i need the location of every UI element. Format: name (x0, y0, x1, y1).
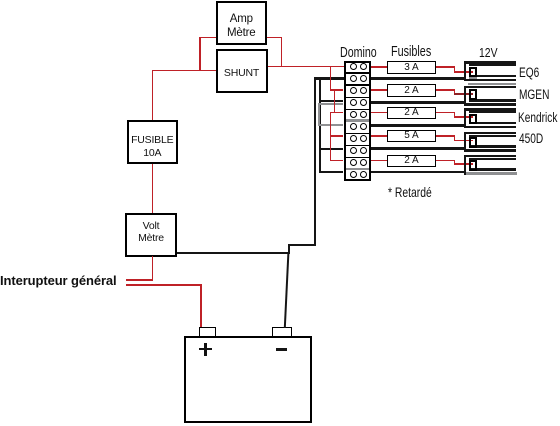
label Retarde note (388, 184, 432, 200)
wire row9 to fuse F5 (371, 160, 388, 162)
label 12V (479, 45, 498, 60)
battery plus symbol (199, 343, 212, 356)
fuse F3 2A (387, 107, 436, 120)
fuse F2 2A (387, 84, 436, 97)
wire row1 to fuse F1 (371, 66, 388, 68)
wire row5 to fuse F3 (371, 112, 388, 114)
label Domino (340, 44, 377, 61)
outer shell left (464, 61, 467, 81)
outer shell bottom (464, 103, 516, 106)
fuse F1 3A (387, 61, 436, 74)
wire riser shunt to fusible (152, 70, 154, 120)
wire fuse F4 to connector pin (0, 0, 1, 1)
wire shunt left horizontal (152, 70, 216, 72)
outer shell bottom (464, 126, 516, 129)
center pin (469, 89, 478, 100)
wire 12V branch row5 (330, 112, 344, 114)
label Fusibles (391, 43, 431, 60)
wire ground line to connector 450D (371, 147, 467, 150)
wire ground row8 horizontal (319, 148, 344, 151)
battery positive terminal tab (199, 327, 216, 337)
outer shell left (464, 108, 467, 128)
wire ground gray riser (318, 103, 320, 126)
outer shell left (464, 86, 467, 106)
wire amp meter right horizontal (267, 37, 282, 39)
wire fuse F3 to connector pin (0, 0, 1, 1)
wire ground line to connector EQ6 (371, 77, 467, 80)
wire 12V staircase riser 1 (330, 66, 332, 91)
battery B1 (184, 336, 312, 423)
label EQ6 (519, 65, 539, 80)
outer shell left (464, 132, 467, 152)
outer shell bottom (464, 79, 516, 82)
outer shell top (464, 132, 516, 135)
wire ground bus vertical (negative) (314, 77, 316, 246)
center pin (469, 67, 478, 78)
wire 12V branch row9 (330, 160, 344, 162)
label Kendrick (518, 110, 557, 125)
wire ground line to connector MGEN (371, 101, 467, 104)
center pin (469, 137, 478, 148)
wire shunt right main 12V horizontal (268, 66, 344, 68)
battery minus symbol (276, 348, 287, 351)
outer shell top (464, 108, 516, 111)
wire ground line to connector 5 (371, 171, 467, 173)
wire 12V branch row7 (330, 135, 344, 137)
fuse F4 5A (387, 130, 436, 143)
wire fuse F1 to connector pin (0, 0, 1, 1)
wire 12V branch row3 (330, 89, 344, 91)
inner contact top (469, 135, 516, 137)
wire ground row10 horizontal (319, 171, 344, 173)
wire amp meter left horizontal (199, 37, 216, 39)
pin stub (gray) (469, 77, 478, 79)
wire ground row2 horizontal (314, 77, 344, 80)
wire ground bus step vertical (288, 244, 290, 254)
battery negative terminal tab (272, 327, 293, 337)
outer shell top (464, 86, 516, 89)
label Interupteur general (0, 273, 117, 289)
wire voltmeter to switch junction (152, 256, 154, 281)
connector J1 12V EQ6 (464, 61, 517, 83)
wire switch lower contact to battery (126, 284, 202, 286)
inner contact top (469, 158, 516, 160)
wire ground bus step horizontal (288, 244, 316, 246)
inner contact bottom (469, 122, 516, 124)
wire battery positive vertical (200, 284, 202, 327)
connector J3 12V Kendrick (464, 108, 517, 130)
wire fuse F2 to connector pin (0, 0, 1, 1)
wire 12V staircase riser 3 (330, 112, 332, 161)
inner contact top (469, 111, 516, 113)
outer shell bottom (464, 149, 516, 152)
amp meter M1 (216, 1, 268, 45)
ground sleeve (gray) (468, 83, 517, 86)
wire fuse F5 to connector pin (0, 0, 1, 1)
outer shell left (464, 155, 467, 176)
fuse F5 2A (387, 155, 436, 168)
wire amp meter left vertical (199, 37, 201, 71)
inner contact top (469, 64, 516, 66)
inner contact bottom (469, 75, 516, 77)
wire ground row6 gray horizontal (318, 124, 343, 126)
wire ground row4 horizontal (319, 100, 344, 102)
terminal block Domino (344, 61, 371, 182)
wire row3 to fuse F2 (371, 89, 388, 91)
connector J2 12V MGEN (464, 86, 517, 108)
volt meter M2 (125, 213, 177, 257)
wire amp meter right vertical (281, 37, 283, 67)
center pin (469, 114, 478, 125)
wire ground riser chain left of domino (319, 78, 321, 173)
outer shell bottom (gray) (466, 172, 518, 175)
center pin (469, 160, 478, 171)
wire voltmeter negative horizontal (177, 252, 289, 254)
wire row7 to fuse F4 (371, 135, 388, 137)
label MGEN (519, 87, 549, 102)
wire switch upper contact (126, 279, 153, 281)
wire ground line to connector Kendrick (371, 124, 467, 127)
fuse FUSIBLE 10A (127, 120, 179, 164)
outer shell top (464, 155, 516, 158)
inner contact bottom (469, 168, 516, 170)
wire fusible to voltmeter (152, 164, 154, 213)
connector J5 12V spare (464, 155, 518, 177)
connector J4 12V 450D (464, 132, 517, 154)
inner contact bottom (469, 99, 516, 101)
wire ground row4 gray horizontal (318, 103, 343, 105)
inner contact bottom (469, 145, 516, 147)
shunt R-shunt (216, 49, 268, 94)
outer shell top (464, 61, 516, 64)
label 450D (519, 131, 543, 146)
wire 12V staircase riser 2 (334, 89, 336, 113)
